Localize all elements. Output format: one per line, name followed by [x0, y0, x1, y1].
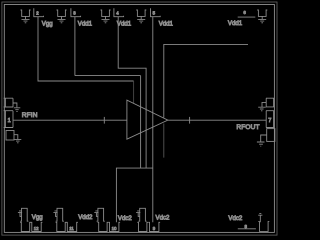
port P12 dc source box: [20, 208, 28, 221]
wire bottom rail to port 10: [116, 168, 152, 222]
port P10 dc source box: [97, 208, 105, 221]
port P10 terminal box (pin 10): [108, 222, 120, 231]
port P4 ground terminal box: [101, 10, 111, 16]
port P1 terminal box (pin 1): [4, 111, 13, 128]
port P2 ground terminal box: [21, 10, 31, 16]
port P7 terminal box (pin 7): [266, 111, 274, 128]
port P5 terminal (pin 5): [151, 8, 161, 16]
port P8 terminal (pin 8) wire: [238, 224, 256, 229]
op-amp U1 (amplifier triangle): [127, 100, 168, 139]
port P12 ground box: [20, 222, 31, 231]
svg-text:9: 9: [153, 226, 156, 231]
ground reference box below RFOUT port: [267, 129, 275, 142]
wire RFOUT output: [168, 119, 266, 121]
ground (P4): [102, 16, 110, 22]
port P9 ground box: [137, 222, 148, 231]
wire drain L lower (dim): [163, 124, 165, 158]
port P1 ground terminal box: [4, 98, 13, 107]
port P2 terminal (pin 2): [34, 8, 44, 16]
port P6 terminal (pin 6) wire: [238, 10, 256, 17]
wire net drain L (right): [164, 44, 248, 117]
port P8 ground box: [258, 222, 269, 232]
port P10 ground box: [98, 222, 109, 231]
ground (P6): [258, 16, 266, 22]
svg-text:Vdd1: Vdd1: [117, 21, 132, 28]
ground (P1): [13, 103, 20, 112]
wire Vgg drop to amp (dim): [133, 81, 135, 103]
svg-text:7: 7: [268, 118, 271, 124]
pin tick on RFIN wire: [103, 117, 105, 124]
svg-text:3: 3: [73, 10, 76, 15]
ground (P3): [58, 16, 66, 22]
inverted ground (P8): [258, 213, 262, 222]
svg-text:11: 11: [69, 226, 74, 231]
port P3 ground terminal box: [57, 10, 67, 16]
port P12 terminal box (pin 12): [31, 222, 43, 231]
wire net Vdd1 from port 4: [118, 17, 146, 168]
ground (below RFIN port): [14, 135, 21, 143]
ground (P7): [258, 102, 266, 110]
svg-text:RFIN: RFIN: [22, 112, 38, 119]
svg-text:10: 10: [112, 226, 117, 231]
svg-text:Vdd1: Vdd1: [159, 21, 174, 28]
inverted ground (P11): [53, 211, 57, 217]
inverted ground (P9): [136, 211, 140, 217]
wire RFIN input: [13, 119, 127, 121]
ground (P5): [137, 16, 145, 22]
svg-text:12: 12: [34, 226, 39, 231]
svg-text:5: 5: [153, 10, 156, 15]
port P11 ground box: [56, 222, 67, 231]
svg-text:Vdc2: Vdc2: [156, 215, 171, 222]
svg-text:1: 1: [8, 118, 11, 124]
svg-text:Vdd1: Vdd1: [228, 20, 243, 27]
svg-text:4: 4: [116, 10, 119, 15]
port P7 ground terminal box: [266, 98, 274, 107]
svg-text:Vdd2: Vdd2: [78, 214, 93, 221]
svg-text:Vgg: Vgg: [32, 214, 43, 221]
svg-text:Vdd1: Vdd1: [78, 21, 93, 28]
port P5 ground terminal box: [136, 10, 146, 16]
svg-text:8: 8: [245, 224, 248, 229]
port P11 terminal box (pin 11): [66, 222, 78, 231]
svg-text:Vdc2: Vdc2: [228, 215, 243, 222]
inverted ground (P10): [94, 211, 98, 217]
port P4 terminal (pin 4): [114, 8, 124, 16]
wire net Vdd1 from port 3: [75, 17, 141, 168]
svg-text:6: 6: [243, 10, 246, 15]
svg-text:Vgg: Vgg: [42, 21, 53, 28]
ground (P2): [22, 16, 30, 22]
ground reference box below RFIN port: [6, 131, 14, 141]
pin tick on RFOUT wire: [189, 117, 191, 124]
port P9 dc source box: [138, 208, 146, 221]
port P11 dc source box: [56, 208, 64, 221]
wire net Vgg from port 2: [38, 17, 134, 81]
port P3 terminal (pin 3): [71, 8, 81, 16]
svg-text:RFOUT: RFOUT: [236, 124, 259, 131]
svg-text:Vdc2: Vdc2: [118, 215, 133, 222]
svg-text:2: 2: [36, 10, 39, 15]
wire net Vdd1 from port 5 down to port 9: [152, 17, 154, 223]
inverted ground (P12): [18, 211, 22, 217]
port P9 terminal box (pin 9): [148, 222, 160, 231]
ground (below RFOUT port): [257, 135, 267, 146]
port P6 ground terminal box: [257, 10, 267, 16]
